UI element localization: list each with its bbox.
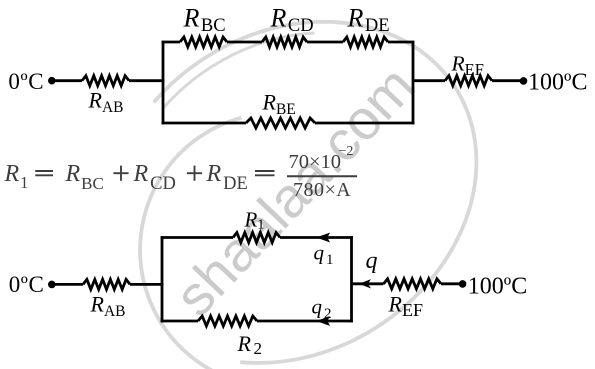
- svg-text:q1: q1: [314, 241, 334, 269]
- svg-text:RAB: RAB: [88, 88, 124, 117]
- svg-text:100ºC: 100ºC: [468, 274, 527, 300]
- svg-text:q: q: [366, 248, 378, 274]
- svg-text:0ºC: 0ºC: [8, 69, 44, 94]
- svg-text:RBC: RBC: [183, 4, 226, 37]
- svg-text:R1: R1: [4, 161, 29, 192]
- svg-text:RDE: RDE: [206, 161, 248, 194]
- svg-text:RCD: RCD: [270, 4, 314, 37]
- svg-text:REF: REF: [451, 52, 484, 80]
- svg-text:0ºC: 0ºC: [9, 272, 45, 297]
- svg-text:100ºC: 100ºC: [528, 69, 587, 95]
- svg-text:RBE: RBE: [262, 89, 296, 118]
- svg-text:q2: q2: [312, 295, 332, 323]
- svg-text:RBC: RBC: [65, 161, 104, 193]
- svg-text:RAB: RAB: [90, 291, 126, 320]
- svg-text:RDE: RDE: [347, 4, 390, 37]
- svg-text:−2: −2: [339, 144, 354, 159]
- svg-text:70×10: 70×10: [289, 151, 342, 173]
- svg-text:R2: R2: [237, 331, 262, 358]
- svg-text:780×A: 780×A: [293, 179, 351, 201]
